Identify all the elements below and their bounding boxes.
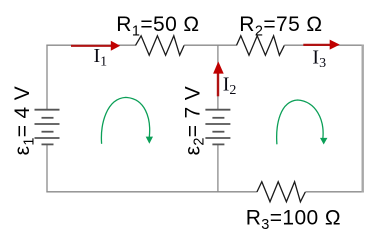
svg-text:R2=75 Ω: R2=75 Ω bbox=[239, 13, 322, 39]
battery E1 short plate 1 bbox=[42, 117, 54, 119]
loop arrow right head bbox=[320, 138, 327, 145]
battery E2 long plate 1 bbox=[205, 109, 230, 111]
resistor R1 zigzag bbox=[136, 36, 185, 55]
svg-text:I2: I2 bbox=[223, 74, 237, 98]
battery E2 long plate 3 bbox=[205, 137, 230, 139]
svg-text:R3=100 Ω: R3=100 Ω bbox=[246, 207, 341, 233]
wire bottom horizontal right segment bbox=[305, 191, 364, 193]
wire left vertical lower segment bbox=[46, 144, 48, 192]
wire middle vertical upper segment (node to battery) bbox=[217, 45, 219, 110]
battery E2 short plate 2 bbox=[212, 131, 224, 133]
battery E1 short plate 3 (bottom terminal) bbox=[42, 143, 54, 145]
battery E2 short plate 1 bbox=[212, 117, 224, 119]
wire top horizontal middle segment bbox=[184, 44, 236, 46]
loop arrow right (green, clockwise) bbox=[277, 100, 323, 144]
svg-text:I3: I3 bbox=[312, 46, 326, 70]
wire bottom horizontal left segment bbox=[46, 191, 257, 193]
wire middle vertical lower segment bbox=[217, 144, 219, 192]
wire right vertical bbox=[362, 45, 364, 193]
loop arrow left (green, clockwise) bbox=[101, 97, 149, 143]
battery E1 long plate 3 bbox=[35, 137, 60, 139]
current arrow I2 head bbox=[213, 61, 224, 73]
current arrow I3 shaft bbox=[303, 44, 331, 46]
svg-text:R1=50 Ω: R1=50 Ω bbox=[116, 13, 199, 39]
wire top horizontal left segment bbox=[46, 44, 135, 46]
current arrow I3 head bbox=[330, 40, 340, 50]
current arrow I2 shaft bbox=[217, 73, 219, 97]
battery E2 short plate 3 (bottom terminal) bbox=[212, 143, 224, 145]
wire top horizontal right segment bbox=[284, 44, 364, 46]
resistor R2 zigzag bbox=[237, 36, 285, 55]
svg-text:I1: I1 bbox=[94, 45, 108, 69]
battery E1 long plate 1 bbox=[35, 109, 60, 111]
current arrow I1 head bbox=[111, 41, 120, 51]
battery E1 long plate 2 bbox=[35, 123, 60, 125]
battery E2 long plate 2 bbox=[205, 123, 230, 125]
svg-text:ε2= 7 V: ε2= 7 V bbox=[181, 86, 207, 156]
resistor R3 zigzag bbox=[257, 182, 305, 202]
wire left vertical upper segment bbox=[46, 45, 48, 110]
battery E1 short plate 2 bbox=[42, 131, 54, 133]
current arrow I1 shaft bbox=[71, 45, 113, 47]
svg-text:ε1= 4 V: ε1= 4 V bbox=[11, 86, 37, 156]
loop arrow left head bbox=[146, 137, 153, 144]
